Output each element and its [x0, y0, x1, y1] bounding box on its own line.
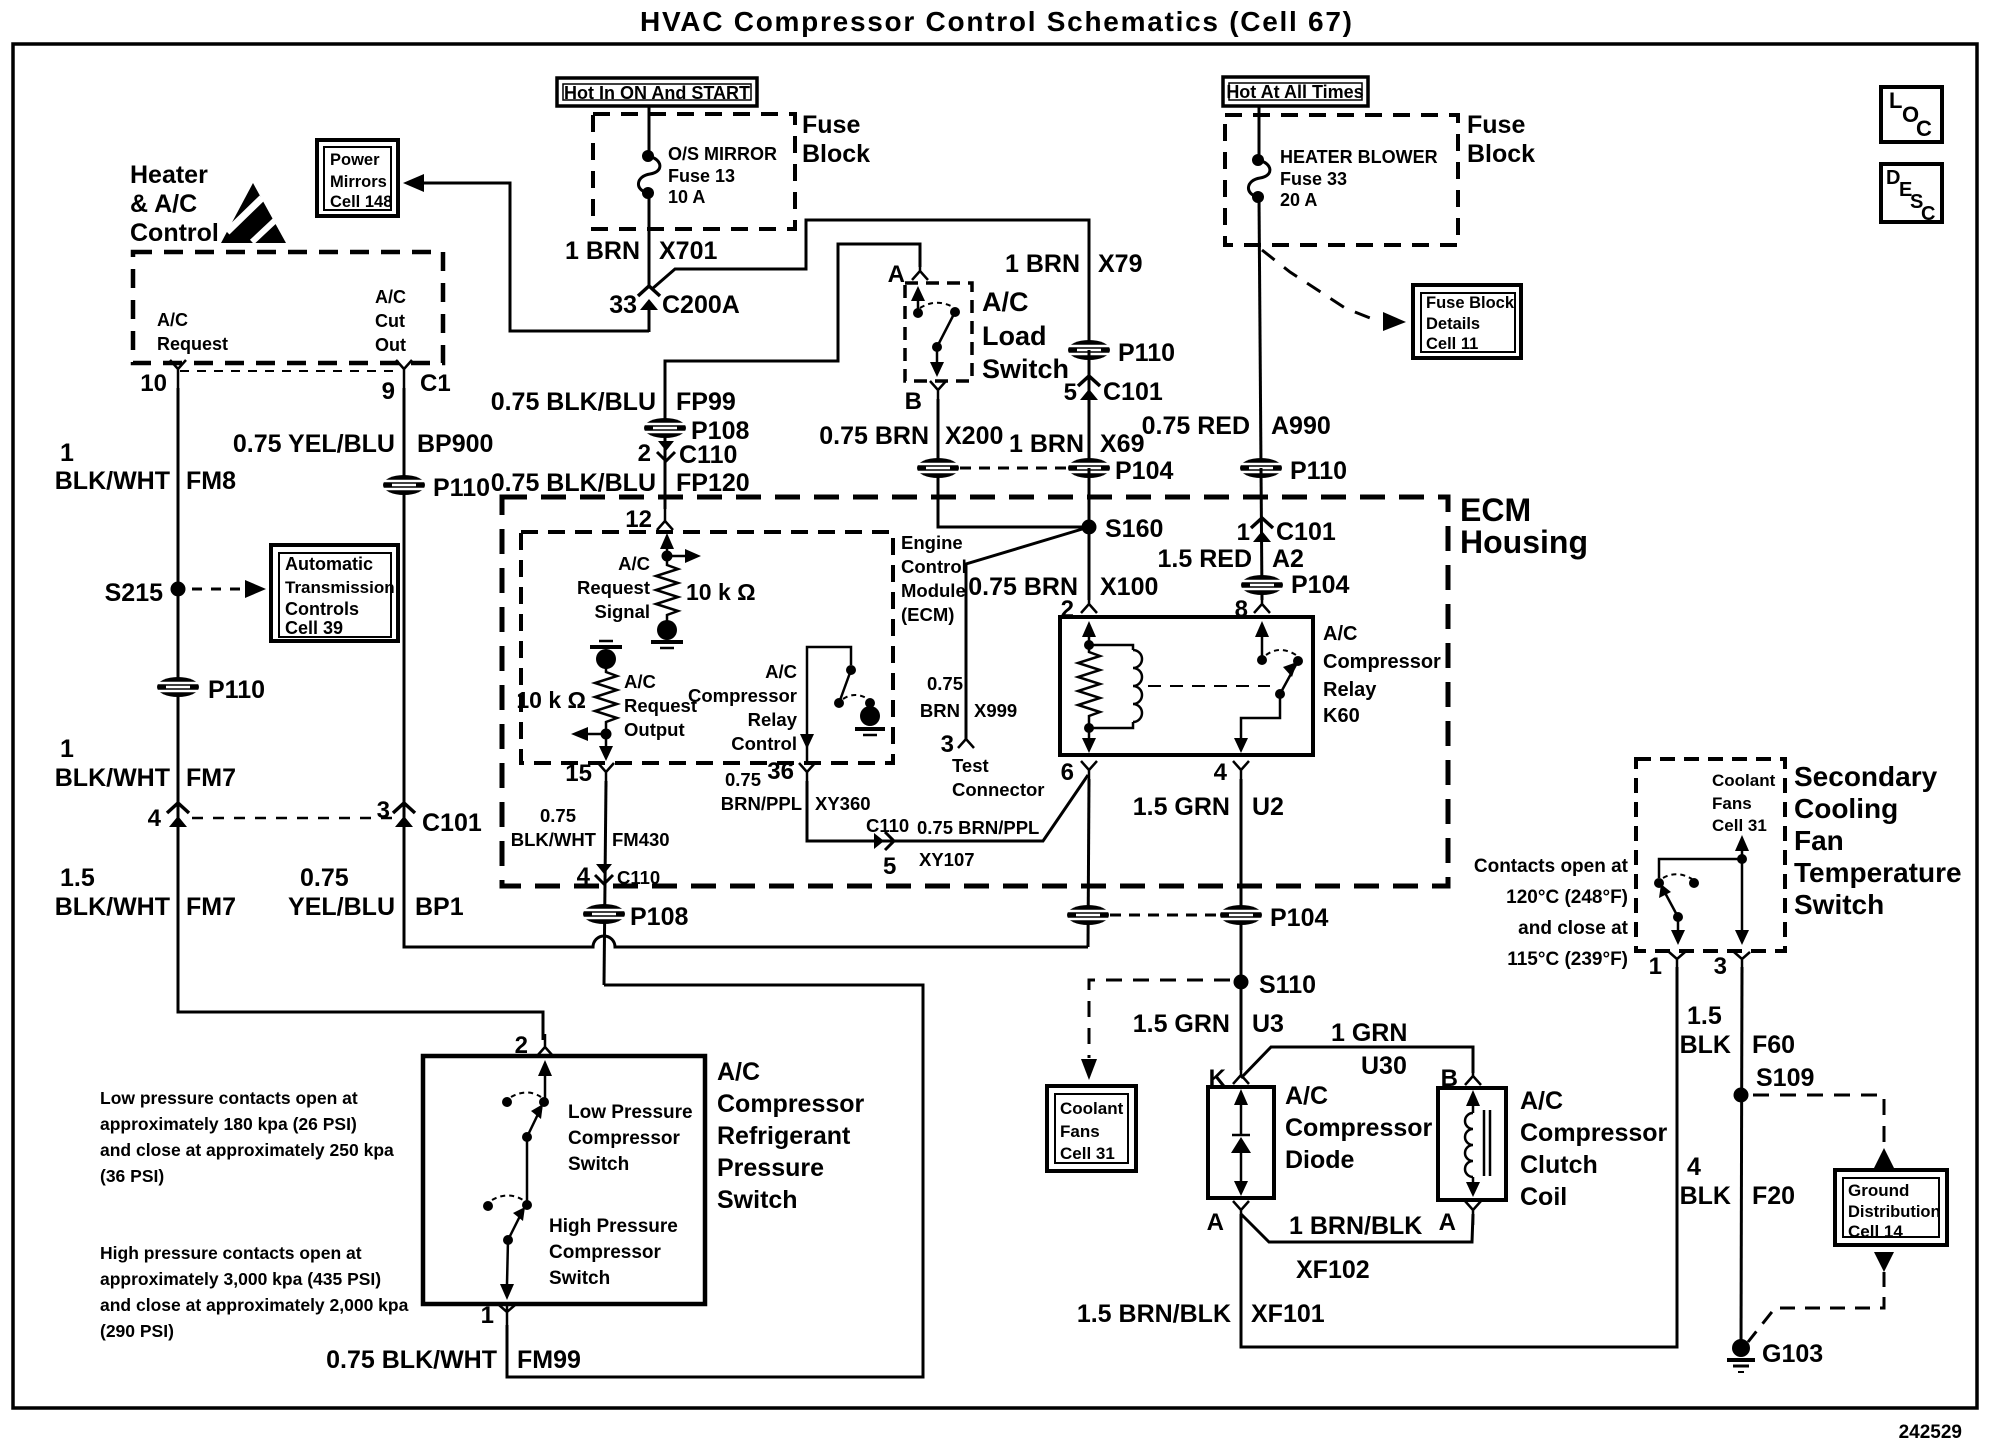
- A/C request signal input arrow: [660, 533, 701, 563]
- wire into fuse 33: [1258, 106, 1261, 157]
- ground G103: [1727, 1339, 1823, 1372]
- label 0.75 YEL/BLU BP1: [288, 864, 464, 921]
- label A/C Request Output: [624, 671, 697, 740]
- pressure switch box: [423, 1056, 705, 1304]
- connector P110 on X79 wire: [1068, 339, 1175, 367]
- label 0.75 BRN X200: [819, 422, 1003, 450]
- label 1.5 BRN/BLK XF101: [1077, 1300, 1325, 1328]
- connector P104 on X200 wire: [917, 458, 959, 478]
- svg-text:0.75: 0.75: [725, 769, 761, 790]
- label 0.75 BRN X100: [968, 573, 1158, 601]
- pin 3 test connector: [941, 731, 974, 758]
- connector P104 on A2 wire: [1241, 571, 1349, 599]
- svg-text:Power: Power: [330, 151, 380, 169]
- temp switch dashed box: [1636, 759, 1785, 951]
- label 0.75 RED A990: [1142, 412, 1331, 440]
- svg-text:X200: X200: [945, 422, 1003, 450]
- label 4 BLK F20: [1680, 1153, 1795, 1210]
- svg-text:Signal: Signal: [594, 601, 650, 622]
- label Low Pressure Compressor Switch: [568, 1102, 693, 1175]
- label high pressure note: [100, 1243, 409, 1341]
- svg-text:C: C: [1916, 116, 1932, 141]
- pin 10: [140, 360, 186, 397]
- svg-text:4: 4: [577, 863, 591, 890]
- svg-text:10 A: 10 A: [668, 187, 705, 207]
- svg-text:FM7: FM7: [186, 893, 236, 921]
- label Test Connector: [952, 755, 1045, 800]
- svg-text:Low pressure contacts open at: Low pressure contacts open at: [100, 1088, 358, 1108]
- label A/C Compressor Clutch Coil: [1520, 1087, 1668, 1211]
- svg-text:K60: K60: [1323, 705, 1360, 727]
- svg-text:BLK: BLK: [1680, 1031, 1731, 1059]
- svg-text:Fuse Block: Fuse Block: [1426, 294, 1515, 312]
- wire 1 GRN U30 from K node to coil pin B: [1241, 1047, 1473, 1078]
- wire to C101 pin 1: [1261, 468, 1262, 600]
- svg-text:2: 2: [638, 440, 651, 467]
- svg-text:Details: Details: [1426, 315, 1480, 333]
- svg-text:0.75 YEL/BLU: 0.75 YEL/BLU: [233, 430, 395, 458]
- svg-text:36: 36: [767, 758, 794, 785]
- svg-text:9: 9: [382, 378, 395, 405]
- dashed wire S110 to coolant fans: [1081, 980, 1230, 1080]
- pin K: [1209, 1062, 1249, 1092]
- wire S160 to test connector pin 3: [966, 527, 1089, 739]
- splice S109: [1734, 1064, 1815, 1103]
- ECM inner dashed box: [521, 532, 893, 763]
- pin 9: [382, 360, 412, 405]
- load switch lever: [930, 307, 960, 377]
- svg-text:1: 1: [60, 735, 74, 763]
- pin 1 (temp switch): [1649, 952, 1685, 980]
- svg-text:Switch: Switch: [1794, 889, 1884, 920]
- svg-text:BP900: BP900: [417, 430, 493, 458]
- svg-text:Compressor: Compressor: [717, 1090, 865, 1118]
- svg-text:B: B: [905, 388, 922, 415]
- clutch coil internals: [1465, 1090, 1490, 1197]
- svg-text:Control: Control: [731, 733, 797, 754]
- splice S160: [1082, 515, 1164, 543]
- Ground Distribution Cell 14 reference box: [1835, 1170, 1947, 1245]
- pin 2 (pressure switch): [515, 1032, 553, 1059]
- label Engine Control Module (ECM): [901, 532, 967, 625]
- banner Hot At All Times: [1223, 77, 1368, 106]
- label 1 BLK/WHT FM8: [55, 439, 236, 495]
- svg-text:S160: S160: [1105, 515, 1163, 543]
- wire from C200A to Power Mirrors with arrow: [403, 174, 649, 331]
- label 1.5 RED A2: [1158, 545, 1304, 573]
- wire P108 down right down to pressure switch pin 1: [507, 985, 923, 1377]
- relay control ground: [855, 698, 885, 735]
- svg-text:Control: Control: [901, 556, 967, 577]
- svg-text:Refrigerant: Refrigerant: [717, 1122, 851, 1150]
- svg-text:Fuse: Fuse: [1467, 111, 1525, 139]
- resistor 10k (request output): [595, 668, 617, 734]
- wire C200A branch to X79 feed: [652, 220, 1089, 350]
- connector P104 dashed link line: [960, 467, 1066, 470]
- fuse block dashed box (heater blower): [1225, 115, 1458, 245]
- svg-text:A/C: A/C: [157, 310, 188, 330]
- connector C1 dashed pin-to-pin line: [180, 370, 400, 372]
- label 1 BRN X69: [1009, 430, 1145, 458]
- label 0.75 BRN/PPL XY107: [917, 817, 1039, 870]
- svg-text:20 A: 20 A: [1280, 190, 1317, 210]
- label O/S MIRROR Fuse 13 10 A: [668, 144, 777, 207]
- pin 36: [767, 758, 815, 787]
- svg-text:0.75 BRN/PPL: 0.75 BRN/PPL: [917, 817, 1039, 838]
- svg-text:BLK/WHT: BLK/WHT: [55, 467, 170, 495]
- svg-text:0.75 BRN: 0.75 BRN: [819, 422, 929, 450]
- svg-text:(ECM): (ECM): [901, 604, 954, 625]
- svg-text:U3: U3: [1252, 1010, 1284, 1038]
- label A/C Compressor Relay K60: [1323, 623, 1441, 727]
- wire XF101 diode A down right and up to temp switch pin 1: [1241, 967, 1677, 1347]
- ECM housing dashed box: [502, 497, 1448, 886]
- svg-text:Request: Request: [577, 577, 650, 598]
- svg-text:High pressure contacts open at: High pressure contacts open at: [100, 1243, 362, 1263]
- svg-text:A/C: A/C: [717, 1058, 760, 1086]
- label Coolant Fans Cell 31 (inside switch): [1712, 771, 1776, 835]
- svg-text:P104: P104: [1270, 904, 1328, 932]
- svg-text:Switch: Switch: [568, 1154, 629, 1175]
- temp switch contact and lever: [1654, 878, 1685, 945]
- svg-text:S110: S110: [1259, 971, 1316, 999]
- svg-text:Cell 11: Cell 11: [1426, 335, 1478, 353]
- svg-text:and close at: and close at: [1518, 918, 1628, 939]
- svg-text:and close at approximately 2,0: and close at approximately 2,000 kpa: [100, 1295, 409, 1315]
- svg-text:Automatic: Automatic: [285, 554, 373, 574]
- svg-text:242529: 242529: [1899, 1422, 1962, 1443]
- svg-text:Compressor: Compressor: [1285, 1114, 1433, 1142]
- svg-text:Low Pressure: Low Pressure: [568, 1102, 693, 1123]
- svg-text:BLK/WHT: BLK/WHT: [511, 829, 597, 850]
- wire X69 into ECM to S160: [1088, 468, 1091, 600]
- dashed wire ground distribution to G103: [1748, 1272, 1884, 1342]
- label Fuse Block (right): [1467, 111, 1535, 168]
- svg-text:Pressure: Pressure: [717, 1154, 824, 1182]
- svg-text:Output: Output: [624, 719, 685, 740]
- svg-text:FP120: FP120: [676, 469, 750, 497]
- svg-text:approximately 3,000 kpa (435 P: approximately 3,000 kpa (435 PSI): [100, 1269, 381, 1289]
- svg-text:4: 4: [1687, 1153, 1701, 1181]
- svg-text:Connector: Connector: [952, 779, 1045, 800]
- label 0.75 BLK/BLU FP99: [491, 388, 736, 416]
- label A/C Request Signal: [577, 553, 650, 622]
- ESD sensitive device symbol: [221, 183, 286, 243]
- label A/C Load Switch: [982, 287, 1069, 384]
- label 1.5 GRN U3: [1133, 1010, 1284, 1038]
- svg-text:10 k Ω: 10 k Ω: [516, 687, 586, 713]
- svg-text:Contacts open at: Contacts open at: [1474, 856, 1629, 877]
- svg-text:(290 PSI): (290 PSI): [100, 1321, 174, 1341]
- label 0.75 BLK/BLU FP120: [491, 469, 750, 497]
- connector C110 pin 4: [577, 863, 661, 890]
- connector P110 on BP900 wire: [383, 474, 490, 502]
- svg-text:Cell 31: Cell 31: [1060, 1144, 1115, 1163]
- label A/C Compressor Relay Control: [688, 661, 798, 754]
- pin A (diode): [1207, 1201, 1249, 1236]
- connector C101 pin 1: [1237, 518, 1336, 546]
- dashed wire S109 to ground distribution: [1753, 1095, 1884, 1148]
- relay resistor: [1078, 645, 1100, 728]
- svg-text:P110: P110: [208, 676, 265, 704]
- diode internals: [1231, 1089, 1251, 1196]
- low pressure lever: [522, 1104, 543, 1142]
- svg-text:0.75 RED: 0.75 RED: [1142, 412, 1250, 440]
- svg-text:Load: Load: [982, 321, 1047, 351]
- label 0.75 BLK/WHT FM99: [326, 1346, 581, 1374]
- wire fuse 33 down to relay pin 8: [1259, 197, 1261, 468]
- svg-text:A: A: [1439, 1209, 1456, 1236]
- label Contacts open/close: [1474, 856, 1629, 970]
- svg-text:A/C: A/C: [1285, 1082, 1328, 1110]
- label 0.75 BRN X999: [920, 673, 1017, 721]
- svg-text:& A/C: & A/C: [130, 190, 197, 218]
- arrow into ground distribution (up): [1874, 1148, 1894, 1168]
- svg-text:A/C: A/C: [1520, 1087, 1563, 1115]
- wire X200 from pin B to S160: [938, 399, 1082, 527]
- svg-text:Switch: Switch: [717, 1186, 798, 1214]
- svg-text:1.5 BRN/BLK: 1.5 BRN/BLK: [1077, 1300, 1231, 1328]
- svg-text:Clutch: Clutch: [1520, 1151, 1598, 1179]
- svg-text:Test: Test: [952, 755, 989, 776]
- temp switch movement dashed arc: [1663, 874, 1692, 879]
- svg-text:FP99: FP99: [676, 388, 736, 416]
- svg-text:Relay: Relay: [748, 709, 798, 730]
- svg-text:HVAC Compressor Control Schema: HVAC Compressor Control Schematics (Cell…: [640, 6, 1352, 37]
- svg-text:0.75: 0.75: [927, 673, 963, 694]
- splice S215: [105, 579, 186, 607]
- svg-text:O/S MIRROR: O/S MIRROR: [668, 144, 777, 164]
- svg-text:0.75 BLK/WHT: 0.75 BLK/WHT: [326, 1346, 497, 1374]
- svg-text:FM430: FM430: [612, 829, 670, 850]
- link between switches: [526, 1137, 529, 1203]
- connector C101 pin 5: [1064, 376, 1163, 406]
- svg-text:Switch: Switch: [982, 354, 1069, 384]
- svg-text:Cell 31: Cell 31: [1712, 816, 1767, 835]
- relay control movement dashed arc: [843, 695, 868, 699]
- svg-text:Compressor: Compressor: [688, 685, 797, 706]
- LOC reference box: [1881, 87, 1942, 142]
- svg-text:1.5 GRN: 1.5 GRN: [1133, 793, 1230, 821]
- fuse F33 symbol: [1248, 154, 1269, 203]
- connector P108: [644, 417, 749, 445]
- svg-text:1 BRN/BLK: 1 BRN/BLK: [1289, 1212, 1422, 1240]
- svg-text:1.5 GRN: 1.5 GRN: [1133, 1010, 1230, 1038]
- load switch movement dashed arc: [920, 303, 953, 308]
- svg-text:0.75: 0.75: [300, 864, 349, 892]
- pin B: [905, 381, 946, 415]
- svg-text:U2: U2: [1252, 793, 1284, 821]
- wire relay pin 4 down to diode pin K: [1240, 779, 1243, 1070]
- label 1.5 BLK/WHT FM7: [55, 864, 236, 921]
- svg-text:BLK/WHT: BLK/WHT: [55, 764, 170, 792]
- svg-text:Control: Control: [130, 219, 219, 247]
- svg-text:Hot At All Times: Hot At All Times: [1226, 82, 1363, 102]
- svg-text:A/C: A/C: [375, 287, 406, 307]
- svg-text:and close at approximately 250: and close at approximately 250 kpa: [100, 1140, 394, 1160]
- svg-text:Compressor: Compressor: [549, 1242, 662, 1263]
- low pressure movement dashed arc: [511, 1093, 541, 1098]
- svg-text:1.5: 1.5: [60, 864, 95, 892]
- svg-text:Secondary: Secondary: [1794, 761, 1938, 792]
- svg-text:0.75: 0.75: [540, 805, 576, 826]
- svg-text:P110: P110: [1118, 339, 1175, 367]
- wire FM430 from pin 15 to P108: [604, 781, 606, 985]
- arrow out of ground distribution (down): [1874, 1252, 1894, 1272]
- svg-text:Heater: Heater: [130, 161, 208, 189]
- svg-text:6: 6: [1061, 759, 1074, 786]
- high pressure lever: [503, 1207, 525, 1245]
- svg-text:A: A: [888, 261, 905, 288]
- svg-text:1 BRN: 1 BRN: [1009, 430, 1084, 458]
- Fuse Block Details Cell 11 reference box: [1413, 285, 1521, 358]
- svg-text:Controls: Controls: [285, 599, 359, 619]
- svg-text:X69: X69: [1100, 430, 1144, 458]
- Heater A/C control dashed box: [133, 252, 443, 363]
- svg-text:YEL/BLU: YEL/BLU: [288, 893, 395, 921]
- svg-text:XY107: XY107: [919, 849, 975, 870]
- pin 4: [1214, 759, 1249, 786]
- temp switch internal wiring: [1659, 835, 1749, 945]
- dashed arrow from S215 to ATC box: [192, 580, 266, 598]
- label 0.75 BRN/PPL XY360: [721, 769, 871, 814]
- svg-text:A/C: A/C: [982, 287, 1029, 317]
- relay internal dashed link: [1148, 685, 1270, 687]
- svg-text:approximately 180 kpa (26 PSI): approximately 180 kpa (26 PSI): [100, 1114, 357, 1134]
- svg-text:Module: Module: [901, 580, 966, 601]
- svg-text:ECM: ECM: [1460, 492, 1531, 528]
- label ECM Housing: [1460, 492, 1588, 560]
- svg-text:S215: S215: [105, 579, 163, 607]
- pin 1 (pressure switch): [481, 1302, 515, 1329]
- svg-text:Switch: Switch: [549, 1268, 610, 1289]
- A/C compressor relay control switch: [800, 647, 856, 764]
- svg-text:Diode: Diode: [1285, 1146, 1355, 1174]
- svg-text:A/C: A/C: [1323, 623, 1357, 645]
- label High Pressure Compressor Switch: [549, 1216, 678, 1289]
- relay coil lower node arrow: [1082, 723, 1096, 753]
- svg-text:3: 3: [1714, 953, 1727, 980]
- svg-text:Cooling: Cooling: [1794, 793, 1898, 824]
- svg-text:XY360: XY360: [815, 793, 871, 814]
- label Secondary Cooling Fan Temperature Switch: [1794, 761, 1962, 920]
- svg-text:S109: S109: [1756, 1064, 1814, 1092]
- relay coil input arrow: [1082, 621, 1096, 650]
- relay K60 box: [1060, 617, 1313, 755]
- wire relay pin 6 down through P104 to BP1 junction: [1088, 779, 1089, 947]
- svg-text:Cell 39: Cell 39: [285, 618, 343, 638]
- svg-text:Relay: Relay: [1323, 679, 1377, 701]
- svg-text:0.75 BLK/BLU: 0.75 BLK/BLU: [491, 469, 656, 497]
- svg-text:10: 10: [140, 370, 167, 397]
- label A/C Compressor Refrigerant Pressure Switch: [717, 1058, 865, 1214]
- svg-text:Fan: Fan: [1794, 825, 1844, 856]
- svg-text:Block: Block: [1467, 140, 1535, 168]
- svg-text:U30: U30: [1361, 1052, 1407, 1080]
- svg-text:Compressor: Compressor: [568, 1128, 681, 1149]
- svg-text:5: 5: [883, 853, 896, 880]
- low pressure switch contact arrow: [538, 1060, 552, 1107]
- svg-text:BRN: BRN: [920, 700, 960, 721]
- svg-text:Cell 14: Cell 14: [1848, 1222, 1903, 1241]
- high pressure output arrow: [500, 1240, 514, 1300]
- relay switch contact arrow: [1255, 621, 1269, 665]
- high pressure contact: [483, 1200, 532, 1211]
- svg-text:HEATER BLOWER: HEATER BLOWER: [1280, 147, 1438, 167]
- svg-text:Housing: Housing: [1460, 524, 1588, 560]
- pin 15: [565, 760, 614, 787]
- signal ground: [651, 620, 683, 648]
- svg-text:Block: Block: [802, 140, 870, 168]
- svg-text:FM99: FM99: [517, 1346, 581, 1374]
- connector P108 on FM430 wire: [583, 903, 688, 931]
- svg-text:Fuse 33: Fuse 33: [1280, 169, 1347, 189]
- output ground: [590, 641, 622, 669]
- label A/C Compressor Diode: [1285, 1082, 1433, 1174]
- svg-text:Request: Request: [624, 695, 697, 716]
- svg-text:FM8: FM8: [186, 467, 236, 495]
- svg-text:High Pressure: High Pressure: [549, 1216, 678, 1237]
- svg-text:C101: C101: [1276, 518, 1336, 546]
- label 1.5 BLK F60: [1680, 1002, 1795, 1059]
- svg-text:Request: Request: [157, 334, 228, 354]
- svg-text:15: 15: [565, 760, 592, 787]
- resistor 10k (request signal): [656, 558, 678, 621]
- svg-text:1 GRN: 1 GRN: [1331, 1019, 1407, 1047]
- pin B (clutch coil): [1441, 1063, 1481, 1092]
- svg-text:P104: P104: [1291, 571, 1349, 599]
- label Heater & A/C Control: [130, 161, 219, 247]
- svg-text:C110: C110: [617, 867, 660, 888]
- svg-text:33: 33: [609, 291, 637, 319]
- dashed arrow to fuse block details: [1262, 250, 1406, 331]
- svg-text:XF101: XF101: [1251, 1300, 1325, 1328]
- svg-text:A2: A2: [1272, 545, 1304, 573]
- svg-text:A: A: [1207, 1209, 1224, 1236]
- label HEATER BLOWER Fuse 33 20 A: [1280, 147, 1438, 210]
- wire F60/F20 pin 3 down to G103: [1741, 967, 1742, 1348]
- svg-text:C200A: C200A: [662, 291, 740, 319]
- svg-text:Compressor: Compressor: [1520, 1119, 1668, 1147]
- svg-text:Mirrors: Mirrors: [330, 173, 387, 191]
- label A/C Request: [157, 310, 228, 354]
- svg-text:X100: X100: [1100, 573, 1158, 601]
- svg-text:BRN/PPL: BRN/PPL: [721, 793, 802, 814]
- fuse F13 symbol: [638, 150, 659, 199]
- label 0.75 BLK/WHT FM430: [511, 805, 670, 850]
- svg-text:L: L: [1889, 88, 1902, 113]
- svg-text:115°C (239°F): 115°C (239°F): [1507, 949, 1628, 970]
- svg-text:Coil: Coil: [1520, 1183, 1567, 1211]
- svg-text:Distribution: Distribution: [1848, 1203, 1941, 1221]
- fuse block dashed box (O/S mirror): [593, 114, 795, 229]
- svg-text:Coolant: Coolant: [1060, 1099, 1124, 1118]
- svg-text:Fans: Fans: [1712, 794, 1752, 813]
- svg-text:Hot In ON And START: Hot In ON And START: [564, 83, 750, 103]
- svg-text:Compressor: Compressor: [1323, 651, 1441, 673]
- wire into fuse: [648, 106, 651, 153]
- svg-text:Ground: Ground: [1848, 1181, 1909, 1200]
- pin A (clutch coil): [1439, 1201, 1481, 1236]
- svg-text:FM7: FM7: [186, 764, 236, 792]
- svg-text:P108: P108: [630, 903, 688, 931]
- wire FM8/FM7 from pin 10 down to pressure switch pin 2: [178, 388, 543, 1040]
- svg-text:A/C: A/C: [624, 671, 656, 692]
- dashed connector line C101 pins 4-3: [192, 817, 392, 820]
- svg-text:10 k Ω: 10 k Ω: [686, 579, 756, 605]
- svg-text:Cell 148: Cell 148: [330, 193, 392, 211]
- svg-text:Coolant: Coolant: [1712, 771, 1776, 790]
